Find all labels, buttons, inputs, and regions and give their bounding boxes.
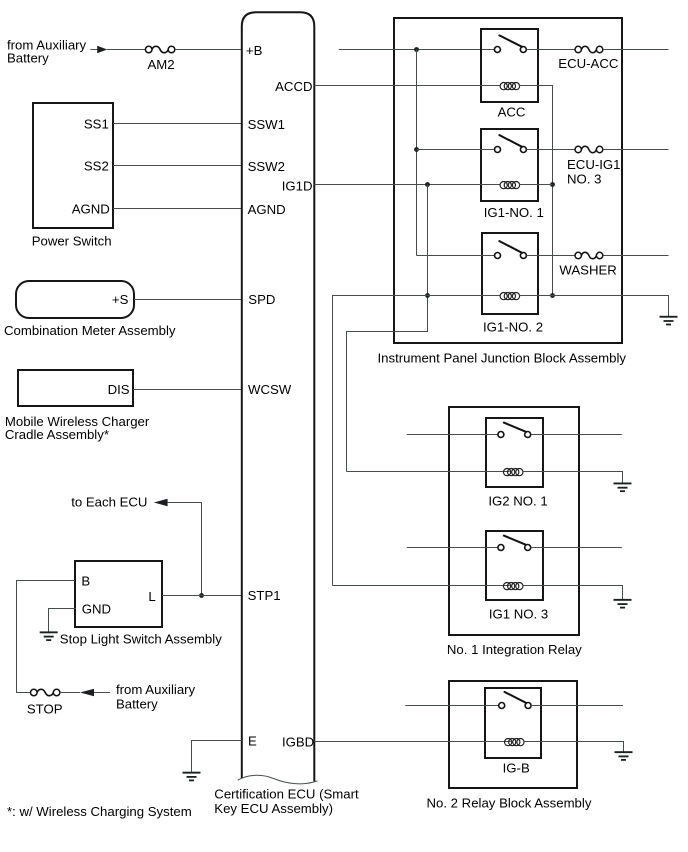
svg-text:Power Switch: Power Switch xyxy=(32,234,112,249)
wire IG2-NO.1 switch left xyxy=(407,434,498,436)
junction dot V2 / IG1-NO.2 coil line xyxy=(425,293,430,298)
svg-text:AGND: AGND xyxy=(72,201,110,216)
wire L to STP1 xyxy=(162,595,242,597)
svg-text:IGBD: IGBD xyxy=(282,734,314,749)
wire IG1-NO.1 coil to V3 xyxy=(519,184,552,186)
wire GND elbow xyxy=(49,609,77,632)
coil IG1-NO.3 xyxy=(503,583,523,590)
svg-text:Cradle Assembly*: Cradle Assembly* xyxy=(5,427,109,442)
No. 2 Relay Block box xyxy=(449,681,577,788)
svg-text:NO. 3: NO. 3 xyxy=(567,171,601,186)
svg-text:IG1D: IG1D xyxy=(282,178,313,193)
svg-text:DIS: DIS xyxy=(108,382,130,397)
relay IG2-NO.1 switch xyxy=(498,423,531,438)
Mobile Wireless Charger caption xyxy=(5,414,150,442)
node from-Auxiliary-Battery label (top) xyxy=(7,38,87,66)
svg-text:ECU-IG1: ECU-IG1 xyxy=(567,157,621,172)
wire IG1-NO.3 switch left xyxy=(407,547,498,549)
Combination Meter Assembly box xyxy=(16,281,134,318)
ground (stop light switch) xyxy=(40,631,58,641)
wire IG1-NO.3 coil to ground elbow xyxy=(523,586,623,600)
ground (IG-B) xyxy=(615,751,633,761)
node from-Auxiliary-Battery label (lower) xyxy=(116,682,196,712)
wire VA elbow to IG1-NO.3 coil xyxy=(333,585,510,587)
arrow to Each ECU xyxy=(154,499,168,507)
svg-text:Battery: Battery xyxy=(116,696,158,711)
svg-text:IG2 NO. 1: IG2 NO. 1 xyxy=(488,493,547,508)
wire VA elbow to IG1-NO.2 coil xyxy=(333,296,501,586)
wire STOP fuse to arrow xyxy=(60,692,80,694)
svg-text:SSW2: SSW2 xyxy=(248,159,285,174)
wire fuse AM2 to ECU pin +B xyxy=(175,49,242,51)
wire V2 vertical with jog to VB xyxy=(347,185,428,472)
relay ACC box xyxy=(481,29,538,102)
svg-text:WCSW: WCSW xyxy=(248,382,292,397)
fuse AM2 xyxy=(145,46,174,72)
wire E to ground xyxy=(192,741,242,773)
svg-text:SSW1: SSW1 xyxy=(248,117,285,132)
svg-text:AGND: AGND xyxy=(248,202,286,217)
svg-text:No. 1 Integration Relay: No. 1 Integration Relay xyxy=(447,642,582,657)
relay ACC switch xyxy=(494,35,526,52)
coil IG2-NO.1 xyxy=(503,469,523,476)
wire IG-B switch left xyxy=(405,705,498,707)
wire IGBD to IG-B coil xyxy=(314,741,510,743)
relay IG2-NO.1 box xyxy=(486,418,543,487)
fuse STOP xyxy=(27,689,63,716)
svg-text:E: E xyxy=(248,733,257,748)
junction dot V3 / IG1D coil line xyxy=(550,182,555,187)
Mobile Wireless Charger Cradle box xyxy=(18,370,133,406)
svg-text:SPD: SPD xyxy=(248,292,275,307)
ground (washer coil) xyxy=(660,316,678,326)
wire SS1 to SSW1 xyxy=(113,123,242,125)
wire IG1-NO.2 coil to ground elbow xyxy=(519,296,668,317)
svg-text:Certification ECU (Smart: Certification ECU (Smart xyxy=(214,786,359,801)
junction dot top feed / V1 xyxy=(414,47,419,52)
relay IG-B switch xyxy=(499,692,531,709)
svg-text:from Auxiliary: from Auxiliary xyxy=(116,682,196,697)
svg-text:STOP: STOP xyxy=(27,702,63,717)
coil IG-B xyxy=(505,739,525,746)
relay IG1-NO.3 box xyxy=(486,531,543,600)
wire IG1D to IG1-NO.1 coil xyxy=(314,184,500,186)
wire IG-B coil to ground elbow xyxy=(524,742,624,752)
wire arrow tail to elbow down to STP1 xyxy=(168,503,202,596)
fuse ECU-IG1 NO. 3 xyxy=(567,146,621,186)
relay IG1-NO.2 switch xyxy=(495,241,527,258)
svg-text:IG1-NO. 1: IG1-NO. 1 xyxy=(484,205,544,220)
svg-text:+S: +S xyxy=(112,292,129,307)
wire +B feed line into ACC switch xyxy=(339,49,495,51)
relay IG1-NO.2 box xyxy=(482,233,538,314)
svg-text:ACC: ACC xyxy=(498,105,526,120)
svg-text:Key ECU Assembly): Key ECU Assembly) xyxy=(214,801,333,816)
wire IG1-NO.3 switch right xyxy=(531,547,622,549)
svg-text:STP1: STP1 xyxy=(248,588,281,603)
wire VB elbow to IG2-NO.1 coil xyxy=(347,471,510,473)
svg-text:IG1-NO. 2: IG1-NO. 2 xyxy=(483,319,543,334)
wire ACC coil to V3 elbow xyxy=(519,86,552,296)
arrow from auxiliary battery (lower) xyxy=(80,689,110,697)
svg-text:GND: GND xyxy=(82,602,111,617)
wire battery arrow to fuse AM2 xyxy=(107,49,145,51)
wire IG1-NO.1 switch to fuse ECU-IG1 xyxy=(526,149,575,151)
wire B to left vertical down to STOP fuse xyxy=(17,581,76,693)
svg-text:WASHER: WASHER xyxy=(559,262,616,277)
svg-text:L: L xyxy=(148,589,155,604)
svg-text:Instrument Panel Junction Bloc: Instrument Panel Junction Block Assembly xyxy=(378,351,627,366)
wire V1 to IG1-NO.1 switch xyxy=(417,149,495,151)
No. 1 Integration Relay box xyxy=(449,407,579,635)
wire IG2-NO.1 coil to ground elbow xyxy=(523,472,623,483)
ECU U1 box Certification ECU (rounded top, torn bottom) xyxy=(242,12,314,781)
relay IG1-NO.1 box xyxy=(481,129,538,201)
wire V1 elbow to IG1-NO.2 switch xyxy=(417,255,495,257)
wire V1 vertical feed xyxy=(416,50,418,256)
wire SS2 to SSW2 xyxy=(113,165,242,167)
svg-text:ECU-ACC: ECU-ACC xyxy=(558,56,619,71)
ground (ECU E) xyxy=(183,772,201,782)
ground (IG1-NO.3) xyxy=(614,599,632,609)
svg-text:No. 2 Relay Block Assembly: No. 2 Relay Block Assembly xyxy=(427,795,592,810)
Stop Light Switch box xyxy=(75,561,162,627)
junction dot STP1 branch xyxy=(199,593,204,598)
wire fuse ECU-IG1 to right xyxy=(603,149,669,151)
ground (IG2-NO.1) xyxy=(614,483,632,493)
svg-text:Combination Meter Assembly: Combination Meter Assembly xyxy=(4,323,176,338)
arrow from battery into +B wire xyxy=(91,46,108,54)
coil IG1-NO.1 xyxy=(500,182,520,189)
relay IG-B box xyxy=(485,688,541,758)
wire +S to SPD xyxy=(134,299,242,301)
svg-text:IG-B: IG-B xyxy=(503,760,530,775)
svg-text:*: w/ Wireless Charging System: *: w/ Wireless Charging System xyxy=(7,804,192,819)
wire ACCD to ACC coil xyxy=(314,85,500,87)
svg-text:Stop Light Switch Assembly: Stop Light Switch Assembly xyxy=(60,632,222,647)
wire IG1-NO.2 switch to fuse WASHER xyxy=(526,255,575,257)
wire IG2-NO.1 switch right xyxy=(531,434,622,436)
svg-text:+B: +B xyxy=(246,43,263,58)
wire ACC switch to fuse ECU-ACC xyxy=(526,49,575,51)
wire fuse ECU-ACC to right xyxy=(603,49,669,51)
fuse ECU-ACC xyxy=(558,46,619,71)
svg-text:IG1 NO. 3: IG1 NO. 3 xyxy=(489,606,548,621)
fuse WASHER xyxy=(559,252,616,277)
wire fuse WASHER to right xyxy=(603,255,669,257)
Instrument Panel Junction Block box xyxy=(394,18,622,343)
relay IG1-NO.1 switch xyxy=(495,135,527,152)
wire IG-B switch right xyxy=(531,705,623,707)
ECU torn-edge bottom wave xyxy=(238,775,318,784)
svg-text:AM2: AM2 xyxy=(147,57,174,72)
junction dot V3 / IG1-NO.2 coil line xyxy=(550,293,555,298)
svg-text:B: B xyxy=(81,573,90,588)
svg-text:SS2: SS2 xyxy=(84,158,109,173)
ECU caption xyxy=(214,786,359,816)
wire AGND to AGND xyxy=(113,208,242,210)
svg-text:ACCD: ACCD xyxy=(275,79,312,94)
svg-text:Battery: Battery xyxy=(7,51,49,66)
Power Switch box xyxy=(33,103,113,228)
relay IG1-NO.3 switch xyxy=(498,536,531,551)
wire DIS to WCSW xyxy=(133,389,242,391)
coil IG1-NO.2 xyxy=(500,293,520,300)
junction dot IG1D / V2 xyxy=(425,182,430,187)
junction dot V1 / IG1-NO.1 switch xyxy=(414,147,419,152)
svg-text:to Each ECU: to Each ECU xyxy=(71,495,147,510)
coil ACC xyxy=(500,83,520,90)
svg-text:SS1: SS1 xyxy=(84,116,109,131)
